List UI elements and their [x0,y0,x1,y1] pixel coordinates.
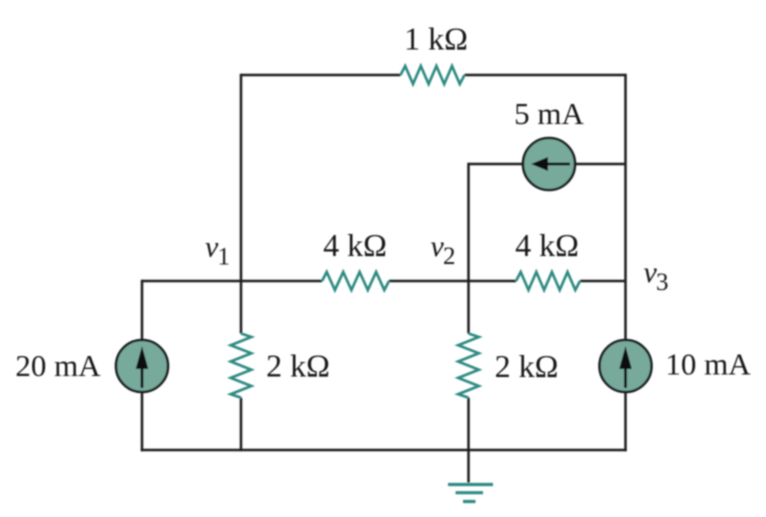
svg-text:2 kΩ: 2 kΩ [266,348,330,384]
svg-text:3: 3 [656,269,669,296]
svg-text:4 kΩ: 4 kΩ [323,227,387,263]
svg-text:1: 1 [218,243,231,270]
svg-text:1 kΩ: 1 kΩ [404,21,468,57]
svg-text:4 kΩ: 4 kΩ [515,227,579,263]
svg-text:2 kΩ: 2 kΩ [495,348,559,384]
svg-text:20 mA: 20 mA [15,348,101,383]
svg-text:2: 2 [443,243,456,270]
svg-text:5 mA: 5 mA [514,96,584,131]
svg-text:10 mA: 10 mA [665,347,751,382]
